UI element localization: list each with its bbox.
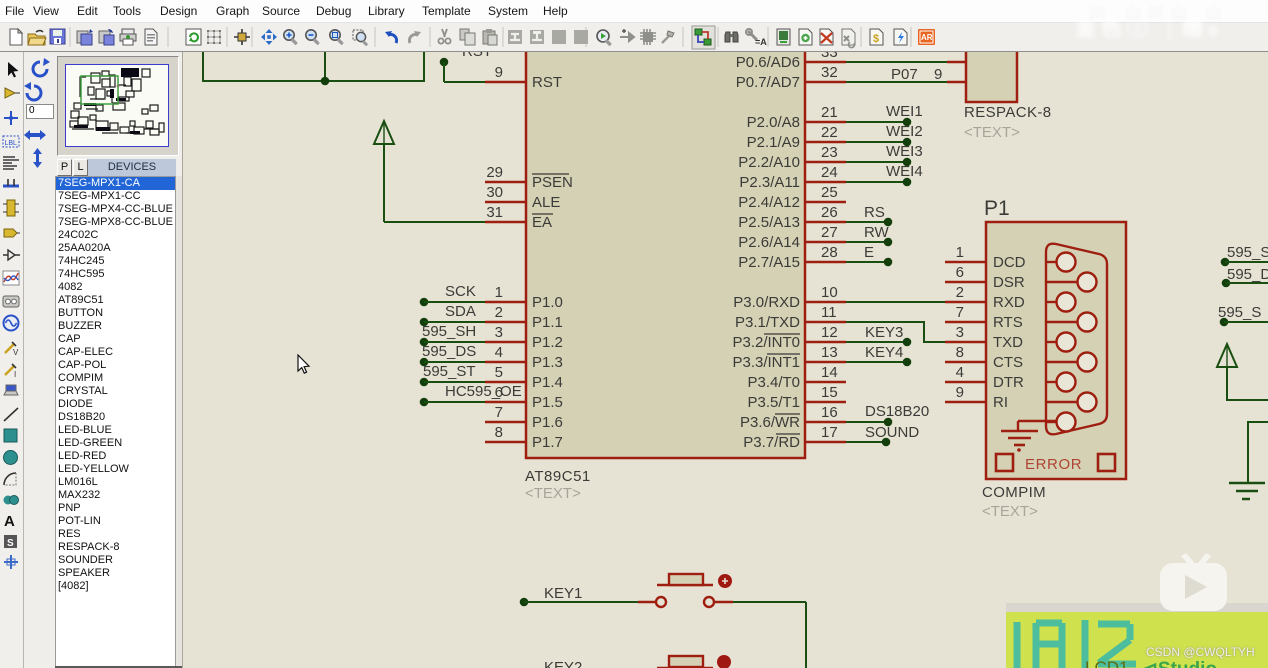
svg-text:P0.6/AD6: P0.6/AD6 <box>736 54 800 71</box>
svg-text:22: 22 <box>821 124 838 141</box>
wire net RXD pin10 to COMPIM pin2 <box>846 301 947 303</box>
COMPIM pin 1 DCD <box>945 244 1026 271</box>
svg-text:1: 1 <box>495 284 503 301</box>
COMPIM pin 3 TXD <box>945 324 1023 351</box>
svg-text:8: 8 <box>956 344 964 361</box>
wire net KEY1 <box>520 585 638 606</box>
wire net DS18B20 <box>846 403 929 426</box>
pin 10 P3.0/RXD <box>733 284 846 311</box>
COMPIM pin 8 CTS <box>945 344 1023 371</box>
svg-text:⊲Studio: ⊲Studio <box>1142 659 1217 668</box>
wire KEY1 to bus <box>733 601 806 603</box>
svg-text:4: 4 <box>956 364 964 381</box>
LCD watermark block <box>1006 603 1268 612</box>
svg-text:9: 9 <box>956 384 964 401</box>
pin 16 P3.6/WR <box>740 404 846 431</box>
wire net 595_SH <box>420 323 485 346</box>
wire vertical from top at x=202 <box>202 40 204 81</box>
svg-text:595_ST: 595_ST <box>423 363 476 380</box>
svg-text:P3.4/T0: P3.4/T0 <box>747 374 800 391</box>
svg-text:KEY4: KEY4 <box>865 344 903 361</box>
DB9 pin circle right 1 <box>1046 273 1097 292</box>
svg-text:6: 6 <box>956 264 964 281</box>
svg-text:P3.7/RD: P3.7/RD <box>743 434 800 451</box>
pin 31 EA <box>485 204 553 231</box>
wire net 595_ST right edge <box>1218 304 1268 326</box>
svg-text:P3.1/TXD: P3.1/TXD <box>735 314 800 331</box>
junction top rail x=324 <box>321 77 330 86</box>
svg-text:17: 17 <box>821 424 838 441</box>
svg-text:23: 23 <box>821 144 838 161</box>
svg-text:2: 2 <box>495 304 503 321</box>
wire horizontal top rail y=81 <box>202 80 425 82</box>
svg-text:CTS: CTS <box>993 354 1023 371</box>
svg-text:1: 1 <box>956 244 964 261</box>
DB9 pin circle left 4 <box>1046 373 1076 392</box>
svg-text:$: $ <box>873 33 879 45</box>
svg-text:EA: EA <box>532 214 552 231</box>
COMPIM pin 7 RTS <box>945 304 1023 331</box>
wire net SCK <box>420 283 485 306</box>
DB9 pin circle left 3 <box>1046 333 1076 352</box>
svg-text:RST: RST <box>532 74 562 91</box>
svg-text:<TEXT>: <TEXT> <box>525 485 581 502</box>
svg-text:11: 11 <box>821 304 837 321</box>
DB9 connector graphic <box>1046 244 1107 435</box>
COMPIM pin 9 RI <box>945 384 1008 411</box>
svg-text:KEY3: KEY3 <box>865 324 903 341</box>
wire net P06 to RESPACK-8 <box>846 61 947 63</box>
svg-text:<TEXT>: <TEXT> <box>964 124 1020 141</box>
svg-text:RW: RW <box>864 224 890 241</box>
svg-text:AR: AR <box>921 33 933 42</box>
svg-text:21: 21 <box>821 104 838 121</box>
pin 4 P1.3 <box>485 344 563 371</box>
wire VCC vertical <box>383 144 385 222</box>
pin 23 P2.2/A10 <box>738 144 846 171</box>
svg-text:33: 33 <box>821 52 838 61</box>
svg-text:TXD: TXD <box>993 334 1023 351</box>
svg-text:31: 31 <box>486 204 503 221</box>
pin stub RESPACK-8 top <box>947 61 966 64</box>
svg-text:P2.6/A14: P2.6/A14 <box>738 234 800 251</box>
pin 5 P1.4 <box>485 364 563 391</box>
pin 33 P0.6/AD6 <box>736 44 846 71</box>
node RST dot <box>440 58 449 67</box>
pin 29 PSEN <box>485 164 573 191</box>
switch KEY1 left contact <box>656 597 666 607</box>
svg-text:12: 12 <box>821 324 838 341</box>
svg-text:15: 15 <box>821 384 838 401</box>
svg-text:E: E <box>864 244 874 261</box>
CSDN watermark text <box>1146 645 1255 659</box>
svg-text:LBL: LBL <box>5 140 18 147</box>
svg-text:25: 25 <box>821 184 838 201</box>
svg-text:3: 3 <box>495 324 503 341</box>
svg-text:595_DS: 595_DS <box>422 343 476 360</box>
svg-text:S: S <box>7 538 14 549</box>
svg-text:P1.2: P1.2 <box>532 334 563 351</box>
svg-text:=A: =A <box>755 37 767 47</box>
svg-text:P1.7: P1.7 <box>532 434 563 451</box>
svg-text:P2.1/A9: P2.1/A9 <box>747 134 800 151</box>
pin 11 P3.1/TXD <box>735 304 846 331</box>
wire vertical from top at x=423 <box>423 40 425 81</box>
microcontroller U1 AT89C51 body <box>526 30 805 458</box>
COMPIM pin 2 RXD <box>945 284 1025 311</box>
svg-text:7: 7 <box>495 404 503 421</box>
svg-text:WEI3: WEI3 <box>886 143 923 160</box>
svg-text:P1.5: P1.5 <box>532 394 563 411</box>
svg-text:8: 8 <box>495 424 503 441</box>
ground symbol right <box>1229 483 1265 499</box>
switch KEY1 right lead <box>714 601 733 604</box>
svg-text:DS18B20: DS18B20 <box>865 403 929 420</box>
pin 14 P3.4/T0 <box>747 364 846 391</box>
svg-text:595_S: 595_S <box>1218 304 1261 321</box>
svg-text:DSR: DSR <box>993 274 1025 291</box>
COMPIM pin 4 DTR <box>945 364 1024 391</box>
svg-text:KEY1: KEY1 <box>544 585 582 602</box>
svg-text:P2.3/A11: P2.3/A11 <box>739 174 800 191</box>
svg-text:LCD1: LCD1 <box>1085 658 1128 668</box>
svg-text:9: 9 <box>934 66 942 83</box>
svg-text:30: 30 <box>486 184 503 201</box>
wire RST vertical <box>443 62 445 82</box>
wire VCC right vertical <box>1226 367 1228 401</box>
svg-text:<TEXT>: <TEXT> <box>982 503 1038 520</box>
pin 26 P2.5/A13 <box>738 204 846 231</box>
switch KEY1 right contact <box>704 597 714 607</box>
svg-text:ALE: ALE <box>532 194 560 211</box>
connector P1 COMPIM body <box>986 222 1126 479</box>
pin 21 P2.0/A8 <box>747 104 846 131</box>
svg-text:26: 26 <box>821 204 838 221</box>
switch KEY1 left lead <box>638 601 656 604</box>
svg-text:SDA: SDA <box>445 303 476 320</box>
svg-text:2: 2 <box>956 284 964 301</box>
wire net KEY4 <box>846 344 911 366</box>
pin 9 RST <box>485 64 562 91</box>
power VCC arrow right <box>1217 344 1237 367</box>
pin 7 P1.6 <box>485 404 563 431</box>
svg-text:28: 28 <box>821 244 838 261</box>
svg-text:SCK: SCK <box>445 283 476 300</box>
DB9 pin circle right 2 <box>1046 313 1097 332</box>
pin 15 P3.5/T1 <box>747 384 846 411</box>
wire net KEY3 <box>846 324 911 346</box>
pin 6 P1.5 <box>485 384 563 411</box>
wire VCC right horizontal <box>1227 399 1268 401</box>
ERROR indicator squares <box>996 454 1013 471</box>
switch KEY2 (partially visible) <box>544 655 731 668</box>
wire VCC to pin EA <box>384 221 485 223</box>
svg-text:HC595_OE: HC595_OE <box>445 383 522 400</box>
wire net 595_ST <box>420 363 485 386</box>
svg-text:P1.3: P1.3 <box>532 354 563 371</box>
svg-text:P1.0: P1.0 <box>532 294 563 311</box>
pin 3 P1.2 <box>485 324 563 351</box>
svg-text:P2.2/A10: P2.2/A10 <box>738 154 800 171</box>
svg-text:P3.3/INT1: P3.3/INT1 <box>732 354 800 371</box>
pin 32 P0.7/AD7 <box>736 64 846 91</box>
wire vertical bus down <box>805 602 807 668</box>
svg-text:DTR: DTR <box>993 374 1024 391</box>
pin 17 P3.7/RD <box>743 424 846 451</box>
wire net SDA <box>420 303 485 326</box>
DB9 pin circle right 3 <box>1046 353 1097 372</box>
svg-text:PSEN: PSEN <box>532 174 573 191</box>
wire net RS <box>846 204 892 226</box>
svg-text:RXD: RXD <box>993 294 1025 311</box>
DB9 pin circle left 5 <box>1046 413 1076 432</box>
svg-text:P1.1: P1.1 <box>532 314 563 331</box>
svg-text:P2.0/A8: P2.0/A8 <box>747 114 800 131</box>
svg-text:WEI4: WEI4 <box>886 163 923 180</box>
pin 9 stub RESPACK-8 <box>947 81 966 84</box>
svg-text:4: 4 <box>495 344 503 361</box>
svg-text:RI: RI <box>993 394 1008 411</box>
svg-text:V: V <box>13 348 19 357</box>
DB9 pin circle left 2 <box>1046 293 1076 312</box>
wire net E <box>846 244 892 266</box>
svg-text:P2.4/A12: P2.4/A12 <box>738 194 800 211</box>
svg-text:ERROR: ERROR <box>1025 456 1082 473</box>
svg-text:10: 10 <box>821 284 838 301</box>
wire net TXD pin11 to COMPIM pin3 <box>846 321 924 323</box>
wire net SOUND <box>846 424 919 446</box>
wire net WEI1 <box>846 103 923 126</box>
svg-text:P3.5/T1: P3.5/T1 <box>747 394 800 411</box>
svg-text:P1: P1 <box>984 197 1010 220</box>
svg-text:3: 3 <box>956 324 964 341</box>
wire net 595_SH right edge <box>1221 244 1268 266</box>
svg-text:7: 7 <box>956 304 964 321</box>
switch KEY1 actuator plate <box>657 584 713 587</box>
svg-text:RS: RS <box>864 204 885 221</box>
svg-text:P1.4: P1.4 <box>532 374 563 391</box>
svg-text:14: 14 <box>821 364 838 381</box>
svg-text:13: 13 <box>821 344 838 361</box>
pin 30 ALE <box>485 184 560 211</box>
pin 27 P2.6/A14 <box>738 224 846 251</box>
svg-text:29: 29 <box>486 164 503 181</box>
svg-text:P0.7/AD7: P0.7/AD7 <box>736 74 800 91</box>
svg-text:595_S: 595_S <box>1227 244 1268 261</box>
svg-text:P1.6: P1.6 <box>532 414 563 431</box>
svg-text:SOUND: SOUND <box>865 424 919 441</box>
wire net WEI2 <box>846 123 923 146</box>
DB9 pin circle right 4 <box>1046 393 1097 412</box>
video watermark icon <box>1155 544 1233 614</box>
svg-text:9: 9 <box>495 64 503 81</box>
pin 28 P2.7/A15 <box>738 244 846 271</box>
svg-text:P2.7/A15: P2.7/A15 <box>738 254 800 271</box>
svg-text:A: A <box>4 513 15 530</box>
svg-text:P3.0/RXD: P3.0/RXD <box>733 294 800 311</box>
switch KEY1 interactive marker <box>718 574 732 588</box>
svg-text:KEY2: KEY2 <box>544 659 582 668</box>
svg-text:P3.2/INT0: P3.2/INT0 <box>732 334 800 351</box>
wire net 595_DS right edge <box>1222 266 1268 287</box>
svg-text:P3.6/WR: P3.6/WR <box>740 414 800 431</box>
svg-text:DCD: DCD <box>993 254 1026 271</box>
svg-text:595_D: 595_D <box>1227 266 1268 283</box>
svg-text:WEI2: WEI2 <box>886 123 923 140</box>
wire net HC595_OE <box>420 383 522 406</box>
wire net 595_DS <box>420 343 485 366</box>
wire net P07 to RESPACK-8 <box>846 81 947 83</box>
pin 13 P3.3/INT1 <box>732 344 846 371</box>
DB9 pin circle left 1 <box>1046 253 1076 272</box>
pin 2 P1.1 <box>485 304 563 331</box>
svg-text:WEI1: WEI1 <box>886 103 923 120</box>
pin 12 P3.2/INT0 <box>732 324 846 351</box>
resistor pack RP1 RESPACK-8 <box>966 30 1017 102</box>
wire to ground right <box>1248 421 1268 423</box>
svg-text:595_SH: 595_SH <box>422 323 476 340</box>
mouse cursor <box>297 354 313 376</box>
svg-text:P2.5/A13: P2.5/A13 <box>738 214 800 231</box>
svg-text:27: 27 <box>821 224 838 241</box>
wire RST horizontal to pin 9 <box>444 81 485 83</box>
pin 25 P2.4/A12 <box>738 184 846 211</box>
svg-text:RTS: RTS <box>993 314 1023 331</box>
svg-text:RST: RST <box>462 52 492 60</box>
svg-text:RESPACK-8: RESPACK-8 <box>964 104 1052 121</box>
pin 24 P2.3/A11 <box>739 164 846 191</box>
pin 8 P1.7 <box>485 424 563 451</box>
svg-text:P07: P07 <box>891 66 918 83</box>
svg-text:I: I <box>14 370 16 379</box>
pin 1 P1.0 <box>485 284 563 311</box>
power VCC arrow <box>374 121 394 144</box>
svg-text:AT89C51: AT89C51 <box>525 468 591 485</box>
wire net WEI4 <box>846 163 923 186</box>
svg-text:32: 32 <box>821 64 838 81</box>
svg-text:5: 5 <box>495 364 503 381</box>
DB9 shell ground symbol <box>1001 421 1057 452</box>
svg-text:COMPIM: COMPIM <box>982 484 1046 501</box>
svg-text:16: 16 <box>821 404 838 421</box>
wire net WEI3 <box>846 143 923 166</box>
wire vertical from top at x=324 <box>324 40 326 81</box>
wire net RW <box>846 224 892 246</box>
pin 22 P2.1/A9 <box>747 124 846 151</box>
svg-text:24: 24 <box>821 164 838 181</box>
COMPIM pin 6 DSR <box>945 264 1025 291</box>
